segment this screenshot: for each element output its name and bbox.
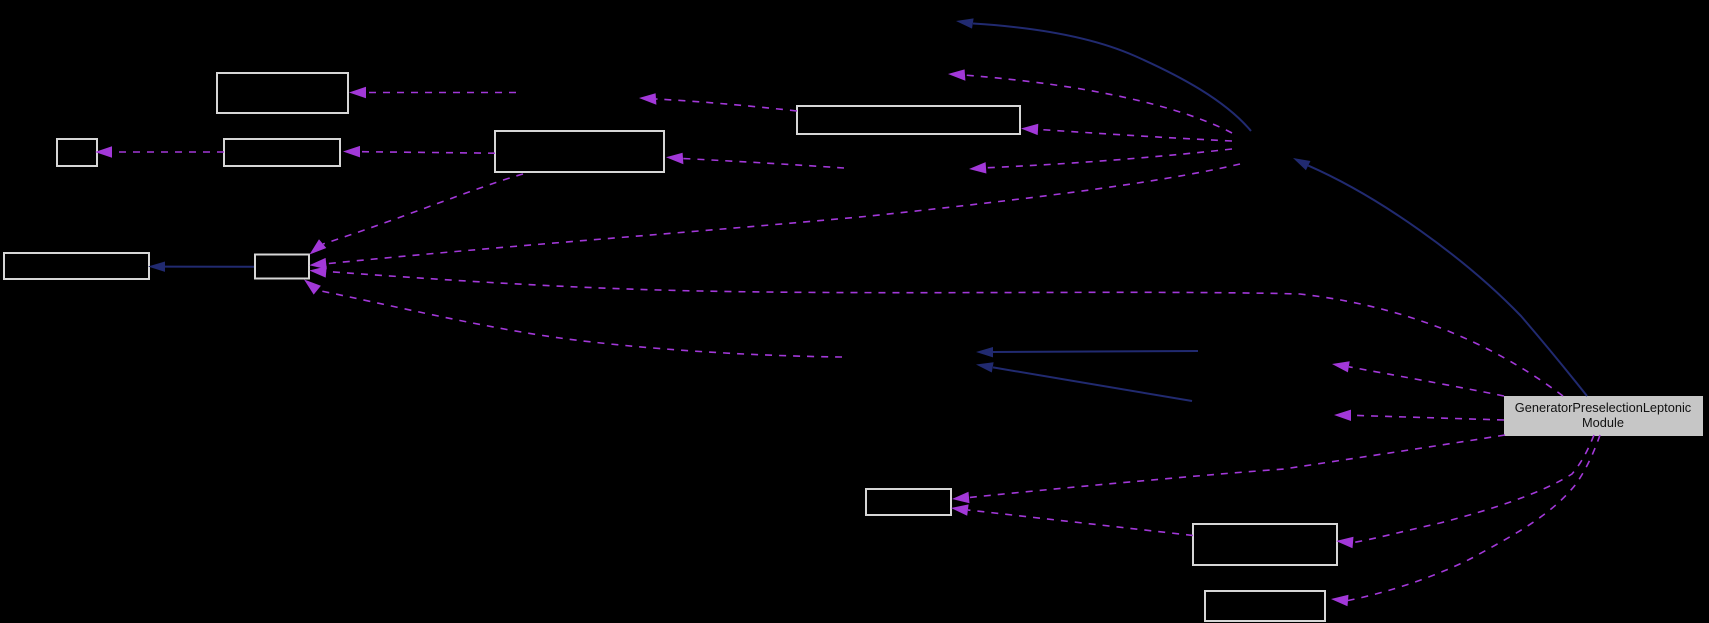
blue inheritance edge B2 (main to hidden node M1) bbox=[1293, 158, 1587, 396]
box C bbox=[224, 139, 340, 166]
purple dashed edge P6 (box D bottom to box G, steep) bbox=[310, 174, 524, 255]
box I bbox=[1193, 524, 1337, 565]
purple dashed edge P7 (hidden M1 to box G) bbox=[309, 164, 1240, 269]
blue inheritance edge B1 (hidden node M1 to hidden node M2 top-left) bbox=[956, 18, 1251, 131]
purple dashed edge P16 (hidden M1 to box E) bbox=[1021, 124, 1232, 141]
box B bbox=[57, 139, 97, 166]
main node GeneratorPreselectionLeptonicModule bbox=[1504, 396, 1703, 436]
box D bbox=[495, 131, 664, 172]
purple dashed edge P5 (hidden N3 to box D) bbox=[666, 153, 844, 168]
purple dashed edge P12 (main to box H) bbox=[952, 435, 1505, 503]
box E bbox=[797, 106, 1020, 134]
purple dashed edge P8 (main to box G upper curve) bbox=[309, 266, 1563, 396]
svg-text:Module: Module bbox=[1582, 415, 1624, 430]
blue inheritance edge B5 (box G to box F) bbox=[148, 262, 254, 272]
purple dashed edge P17 (hidden M1 to hidden N3) bbox=[969, 149, 1232, 174]
purple dashed edge P3 (box D to box C) bbox=[343, 146, 495, 158]
blue inheritance edge B3 (hidden N4 to hidden N5 upper) bbox=[976, 347, 1198, 357]
box H bbox=[866, 489, 951, 515]
purple dashed edge P2 (box C to box B) bbox=[95, 146, 224, 157]
svg-text:GeneratorPreselectionLeptonic: GeneratorPreselectionLeptonic bbox=[1515, 400, 1692, 415]
blue inheritance edge B4 (hidden N4 to hidden N5 lower) bbox=[976, 362, 1192, 401]
box G bbox=[255, 255, 309, 279]
purple dashed edge P10 (main to hidden N4 upper) bbox=[1332, 361, 1504, 396]
box F bbox=[4, 253, 149, 279]
purple dashed edge P9 (hidden N5 to box G lower curve) bbox=[304, 280, 842, 358]
purple dashed edge P13 (main to box I) bbox=[1336, 435, 1594, 548]
purple dashed edge P4 (box E to hidden N2) bbox=[639, 93, 797, 111]
purple dashed edge P14 (main to box J) bbox=[1331, 435, 1600, 606]
purple dashed edge P1 (hidden N2 to box A) bbox=[349, 87, 516, 98]
box A bbox=[217, 73, 348, 113]
purple dashed edge P11 (main to hidden N4 lower) bbox=[1334, 410, 1504, 421]
purple dashed edge P18 (box I to box H) bbox=[951, 504, 1193, 535]
box J bbox=[1205, 591, 1325, 621]
purple dashed edge P15 (hidden M1 to hidden node N6 top-left) bbox=[948, 69, 1232, 133]
